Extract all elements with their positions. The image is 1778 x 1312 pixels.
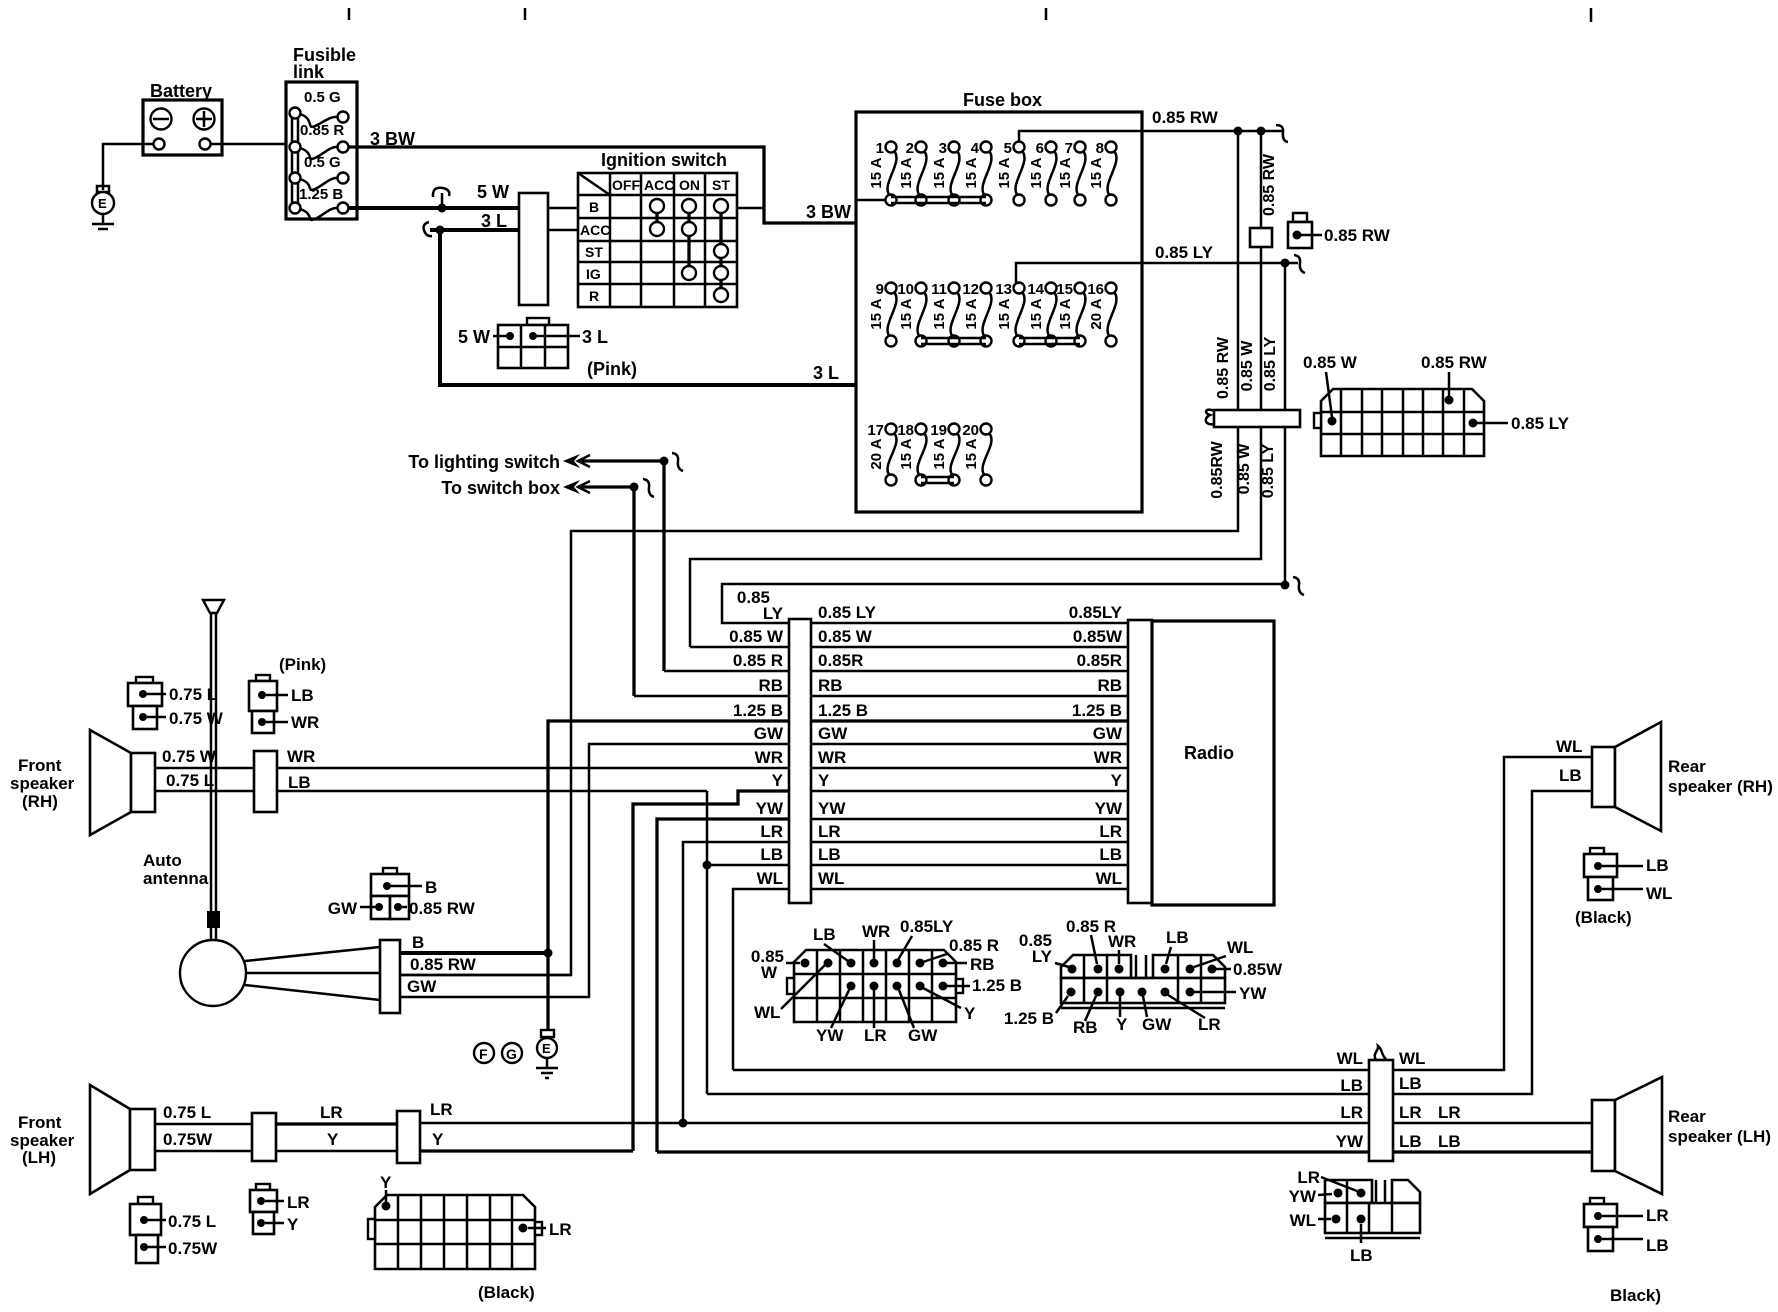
svg-text:0.85 LY: 0.85 LY (1262, 336, 1279, 391)
wire 5W fusible link to ignition switch (348, 182, 519, 213)
svg-text:0.75 L: 0.75 L (166, 771, 214, 790)
svg-text:Fuse box: Fuse box (963, 90, 1042, 110)
wire 0.85RW antenna (400, 955, 571, 975)
svg-text:link: link (293, 62, 325, 82)
rear speaker (LH) (1592, 1077, 1771, 1194)
pin label WL (right grid) (1194, 938, 1253, 967)
svg-text:speaker (LH): speaker (LH) (1668, 1127, 1771, 1146)
svg-text:(Pink): (Pink) (279, 655, 326, 674)
svg-text:LR: LR (320, 1103, 343, 1122)
svg-text:12: 12 (962, 281, 979, 298)
fuse 18 (15 A) (897, 422, 926, 486)
pin label WL (left grid) (754, 965, 825, 1022)
svg-text:0.85 LY: 0.85 LY (1511, 414, 1570, 433)
svg-text:0.85R: 0.85R (1077, 651, 1122, 670)
svg-text:GW: GW (908, 1026, 938, 1045)
wire 0.85R left route (664, 670, 789, 673)
wire 0.85LY from fuse 13 (1016, 243, 1305, 283)
wire Y left route with jog (633, 791, 789, 1151)
wire GW left route (400, 744, 789, 997)
svg-text:1.25 B: 1.25 B (733, 701, 783, 720)
pin label 0.85R (left grid) (923, 936, 999, 962)
svg-text:Front: Front (18, 756, 62, 775)
svg-text:1.25 B: 1.25 B (1072, 701, 1122, 720)
svg-text:E: E (98, 196, 107, 211)
harness grid connector (top right) (1303, 353, 1570, 456)
wire LR radio harness (760, 822, 1128, 842)
svg-text:Ignition switch: Ignition switch (601, 150, 727, 170)
svg-text:15 A: 15 A (1028, 157, 1045, 188)
svg-text:15 A: 15 A (1088, 157, 1105, 188)
svg-text:WR: WR (1108, 932, 1136, 951)
ignition harness connector (Pink) (458, 318, 637, 379)
wire battery negative to ground (103, 144, 153, 190)
pin label LR (left grid) (864, 990, 887, 1045)
svg-text:0.75 W: 0.75 W (162, 747, 217, 766)
svg-text:Auto: Auto (143, 851, 182, 870)
svg-text:Rear: Rear (1668, 757, 1706, 776)
harness grid connector (bottom right) (1289, 1168, 1420, 1265)
wire 0.85RW from fuse 5 (1019, 108, 1288, 142)
inline connector bar (top right) (1206, 410, 1300, 427)
fusible link (286, 45, 357, 220)
svg-text:15 A: 15 A (996, 157, 1013, 188)
wire 0.85W vertical (690, 131, 1278, 647)
wire GW antenna (407, 977, 437, 996)
fuse 3 (15 A) (931, 140, 960, 206)
wire WR from front RH to radio (277, 747, 789, 768)
svg-text:IG: IG (586, 266, 601, 282)
ignition switch table (578, 150, 737, 307)
connector G (502, 1043, 522, 1063)
svg-text:11: 11 (931, 281, 947, 298)
fuse 13 (15 A) (995, 281, 1024, 347)
svg-text:B: B (589, 199, 599, 215)
spare connector 0.75L/0.75W (upper left) (128, 677, 224, 729)
svg-text:YW: YW (818, 799, 846, 818)
svg-text:0.85 LY: 0.85 LY (1155, 243, 1214, 262)
wire YW bottom run (657, 1150, 1369, 1153)
svg-text:B: B (412, 933, 424, 952)
radio connector bar (right) (1128, 620, 1152, 903)
svg-text:0.85 R: 0.85 R (949, 936, 999, 955)
svg-text:1.25 B: 1.25 B (299, 186, 343, 203)
fuse 1 (15 A) (868, 140, 897, 206)
svg-text:LB: LB (1646, 856, 1669, 875)
svg-text:15 A: 15 A (996, 298, 1013, 329)
svg-text:13: 13 (995, 281, 1012, 298)
svg-text:LB: LB (813, 925, 836, 944)
svg-text:3 L: 3 L (813, 363, 839, 383)
pin label GW (right grid) (1142, 996, 1172, 1034)
svg-text:Radio: Radio (1184, 743, 1234, 763)
spare connector LB/WR (Pink) (249, 655, 326, 733)
svg-text:WL: WL (1337, 1049, 1363, 1068)
svg-text:0.85LY: 0.85LY (1069, 603, 1123, 622)
svg-text:LR: LR (1438, 1103, 1461, 1122)
svg-text:YW: YW (756, 799, 784, 818)
svg-text:0.85 W: 0.85 W (1239, 340, 1256, 392)
svg-text:0.85 W: 0.85 W (818, 627, 873, 646)
svg-text:15 A: 15 A (898, 438, 915, 469)
svg-text:LB: LB (1399, 1132, 1422, 1151)
pin label 0.85LY (left grid) (898, 917, 954, 960)
svg-text:LB: LB (1646, 1236, 1669, 1255)
wire 3L ignition switch feed (424, 211, 1049, 385)
svg-text:LB: LB (1399, 1074, 1422, 1093)
wire 3BW from fusible link to fuse box (348, 129, 1017, 223)
spare connector LR/LB rear LH (Black) (1584, 1198, 1669, 1305)
svg-text:RB: RB (758, 676, 783, 695)
pin label WR (left grid) (862, 922, 890, 959)
connector 0.85RW single pin (1288, 213, 1391, 248)
fuse 11 (15 A) (931, 281, 960, 347)
svg-text:15 A: 15 A (931, 438, 948, 469)
svg-text:LB: LB (818, 845, 841, 864)
connector front LH 2 (397, 1111, 420, 1163)
wire WL bottom run (733, 1069, 1369, 1072)
svg-text:0.85 RW: 0.85 RW (1152, 108, 1219, 127)
svg-text:WR: WR (755, 748, 783, 767)
svg-text:7: 7 (1065, 140, 1073, 157)
svg-text:15 A: 15 A (1057, 157, 1074, 188)
svg-text:LY: LY (1032, 947, 1053, 966)
svg-text:LR: LR (1099, 822, 1122, 841)
fuse 8 (15 A) (1088, 140, 1117, 206)
wire 0.85LY left route (722, 584, 1285, 623)
fuse 16 (20 A) (1087, 281, 1116, 347)
svg-text:LB: LB (288, 773, 311, 792)
fuse bus row2 fuses 13-15 (1019, 338, 1080, 344)
pin label Y (left grid) (923, 988, 976, 1023)
svg-text:1: 1 (876, 140, 884, 157)
svg-text:0.85RW: 0.85RW (1209, 440, 1226, 498)
ground E (radio) (536, 1030, 558, 1078)
svg-text:antenna: antenna (143, 869, 209, 888)
svg-text:To switch box: To switch box (441, 478, 560, 498)
fuse 6 (15 A) (1028, 140, 1057, 206)
svg-text:ACC: ACC (580, 222, 610, 238)
svg-text:LB: LB (1559, 766, 1582, 785)
svg-text:LR: LR (1340, 1103, 1363, 1122)
svg-text:WL: WL (1399, 1049, 1425, 1068)
svg-text:LY: LY (763, 604, 784, 623)
svg-text:B: B (425, 878, 437, 897)
svg-text:E: E (542, 1041, 551, 1056)
middle harness connector (left, 7x3) (787, 950, 963, 1022)
svg-text:LR: LR (864, 1026, 887, 1045)
svg-text:LR: LR (430, 1100, 453, 1119)
inline connector bar (bottom right) (1336, 1046, 1426, 1161)
svg-text:LB: LB (760, 845, 783, 864)
svg-text:Rear: Rear (1668, 1107, 1706, 1126)
wire Y front LH (276, 1130, 397, 1151)
page tick marks (349, 8, 1591, 22)
svg-text:LR: LR (1198, 1015, 1221, 1034)
svg-text:ST: ST (585, 244, 603, 260)
svg-text:Y: Y (380, 1173, 392, 1192)
wire RB left route (634, 695, 789, 698)
pin label 0.85LY (right grid) (1019, 931, 1069, 967)
spare connector LB/WL rear RH (Black) (1575, 848, 1672, 927)
svg-text:0.85 R: 0.85 R (733, 651, 783, 670)
svg-text:WL: WL (1290, 1211, 1316, 1230)
svg-text:15 A: 15 A (868, 157, 885, 188)
svg-text:To lighting switch: To lighting switch (408, 452, 560, 472)
svg-text:0.85 W: 0.85 W (1303, 353, 1358, 372)
svg-text:LR: LR (549, 1220, 572, 1239)
wire Y continuation (420, 1130, 633, 1151)
svg-text:15 A: 15 A (868, 298, 885, 329)
svg-text:0.85 RW: 0.85 RW (1421, 353, 1488, 372)
svg-text:Y: Y (327, 1130, 339, 1149)
svg-text:0.85 LY: 0.85 LY (1260, 443, 1277, 498)
svg-text:3 BW: 3 BW (806, 202, 851, 222)
spare connector 0.75L/0.75W (bottom left) (130, 1197, 218, 1263)
wire LB to rear speaker LH (1393, 1132, 1592, 1152)
svg-text:GW: GW (328, 899, 358, 918)
svg-text:GW: GW (1142, 1015, 1172, 1034)
svg-text:Y: Y (772, 771, 784, 790)
wire YW radio harness (756, 799, 1128, 819)
svg-text:2: 2 (906, 140, 914, 157)
svg-text:LR: LR (1646, 1206, 1669, 1225)
wire B antenna (400, 933, 548, 953)
svg-text:3: 3 (939, 140, 947, 157)
fuse box (856, 90, 1142, 512)
fuse 4 (15 A) (963, 140, 992, 206)
fuse 5 (15 A) (996, 140, 1025, 206)
svg-text:3 L: 3 L (582, 327, 608, 347)
svg-text:YW: YW (1095, 799, 1123, 818)
svg-text:GW: GW (407, 977, 437, 996)
svg-text:15 A: 15 A (1057, 298, 1074, 329)
svg-text:14: 14 (1027, 281, 1044, 298)
svg-text:0.75 L: 0.75 L (163, 1103, 211, 1122)
svg-text:0.75W: 0.75W (168, 1239, 218, 1258)
wire RB radio harness (758, 676, 1128, 696)
svg-text:RB: RB (1097, 676, 1122, 695)
svg-text:(Black): (Black) (478, 1283, 535, 1302)
wire LB to rear speaker RH (1393, 766, 1592, 1094)
harness grid connector (bottom left, Black) (368, 1173, 572, 1302)
svg-text:0.85 RW: 0.85 RW (1215, 336, 1232, 399)
fuse 9 (15 A) (868, 281, 897, 347)
pin label LB (right grid) (1166, 928, 1189, 964)
wire battery positive to fusible link (211, 143, 292, 146)
pin label LB (left grid) (813, 925, 848, 961)
svg-text:RB: RB (970, 955, 995, 974)
svg-text:LR: LR (818, 822, 841, 841)
fuse bus row2 fuses 10-12 (921, 338, 986, 344)
fuse 20 (15 A) (962, 422, 991, 486)
fuse 7 (15 A) (1057, 140, 1086, 206)
svg-text:Battery: Battery (150, 81, 212, 101)
svg-text:5: 5 (1004, 140, 1012, 157)
svg-text:Front: Front (18, 1113, 62, 1132)
svg-text:0.85 RW: 0.85 RW (409, 899, 476, 918)
svg-text:15 A: 15 A (898, 157, 915, 188)
wire WL left route (733, 889, 789, 1070)
svg-text:0.85 W: 0.85 W (1236, 443, 1253, 495)
svg-text:WR: WR (862, 922, 890, 941)
svg-text:WL: WL (1646, 884, 1672, 903)
wire 0.75W front RH (155, 747, 254, 768)
svg-text:0.85LY: 0.85LY (900, 917, 954, 936)
wire WR radio harness (755, 748, 1128, 768)
svg-text:0.85R: 0.85R (818, 651, 863, 670)
svg-text:Y: Y (964, 1004, 976, 1023)
wire LR left route (679, 842, 790, 1128)
svg-text:YW: YW (816, 1026, 844, 1045)
wire 0.75W front LH (155, 1130, 252, 1151)
svg-text:0.85 W: 0.85 W (729, 627, 784, 646)
svg-text:YW: YW (1289, 1187, 1317, 1206)
radio connector bar (left) (789, 619, 811, 903)
wire 1.25B left route to ground (544, 721, 790, 1030)
svg-text:WL: WL (1096, 869, 1122, 888)
svg-text:WL: WL (1556, 737, 1582, 756)
svg-text:0.85W: 0.85W (1233, 960, 1283, 979)
svg-text:Y: Y (287, 1215, 299, 1234)
fuse 2 (15 A) (898, 140, 927, 206)
svg-text:YW: YW (1336, 1132, 1364, 1151)
svg-text:(Pink): (Pink) (587, 359, 637, 379)
svg-text:GW: GW (754, 724, 784, 743)
svg-text:R: R (589, 288, 599, 304)
wire GW radio harness (754, 724, 1128, 744)
svg-text:9: 9 (876, 281, 884, 298)
connector front LH 1 (252, 1113, 276, 1161)
fuse 14 (15 A) (1027, 281, 1056, 347)
svg-text:LB: LB (1350, 1246, 1373, 1265)
rear speaker (RH) (1592, 722, 1773, 831)
wire to switch box (RB) (441, 478, 654, 696)
wire YW left route (657, 819, 789, 1152)
svg-text:20 A: 20 A (868, 438, 885, 469)
pin label LR (right grid) (1168, 995, 1221, 1034)
svg-text:ON: ON (679, 177, 700, 193)
svg-text:(RH): (RH) (22, 792, 58, 811)
svg-text:15 A: 15 A (963, 438, 980, 469)
svg-text:LR: LR (287, 1193, 310, 1212)
wire 0.85W left route (690, 646, 789, 649)
svg-text:15 A: 15 A (931, 157, 948, 188)
wire 0.85LY vertical (1260, 263, 1304, 595)
svg-text:WL: WL (818, 869, 844, 888)
pin label GW (left grid) (899, 990, 938, 1045)
antenna connector B/GW/0.85RW (328, 868, 476, 919)
pin label 0.85W (left grid) (751, 947, 800, 982)
fuse bus row3 fuses 18-19 (921, 477, 954, 483)
svg-text:0.5 G: 0.5 G (304, 89, 341, 106)
svg-text:15 A: 15 A (963, 157, 980, 188)
svg-text:LR: LR (760, 822, 783, 841)
pin label 0.85R (right grid) (1066, 917, 1116, 964)
wire LB radio harness (760, 845, 1128, 865)
svg-text:Y: Y (818, 771, 830, 790)
pin label YW (right grid) (1194, 984, 1267, 1003)
wire LB from front RH (277, 773, 707, 792)
connector F (474, 1043, 494, 1063)
front speaker (RH) (10, 730, 155, 835)
svg-text:speaker: speaker (10, 774, 75, 793)
middle harness connector (right, 7x2) (1061, 955, 1225, 1008)
svg-text:WR: WR (287, 747, 315, 766)
ignition switch connector (519, 193, 578, 305)
svg-text:15 A: 15 A (963, 298, 980, 329)
wire 0.85LY radio harness (737, 588, 1128, 623)
svg-text:17: 17 (867, 422, 884, 439)
svg-text:WL: WL (754, 1003, 780, 1022)
svg-text:10: 10 (897, 281, 914, 298)
svg-text:Y: Y (1116, 1015, 1128, 1034)
svg-text:GW: GW (1093, 724, 1123, 743)
connector on 0.85W wire (1250, 228, 1272, 247)
svg-text:ST: ST (712, 177, 730, 193)
radio unit (1152, 621, 1274, 905)
svg-text:0.85 RW: 0.85 RW (1261, 153, 1278, 216)
wire to lighting switch (0.85R) (408, 452, 683, 671)
svg-text:0.75 L: 0.75 L (168, 1212, 216, 1231)
svg-text:WR: WR (291, 713, 319, 732)
fuse 17 (20 A) (867, 422, 896, 486)
svg-text:15 A: 15 A (1028, 298, 1045, 329)
svg-text:0.85 RW: 0.85 RW (410, 955, 477, 974)
wire 0.75L front RH (155, 771, 254, 791)
svg-text:15 A: 15 A (898, 298, 915, 329)
svg-text:19: 19 (930, 422, 947, 439)
svg-text:WR: WR (818, 748, 846, 767)
wire 1.25B radio harness (733, 701, 1128, 721)
svg-text:LB: LB (1438, 1132, 1461, 1151)
fuse 15 (15 A) (1056, 281, 1085, 347)
fuse 12 (15 A) (962, 281, 991, 347)
svg-text:0.85W: 0.85W (1073, 627, 1123, 646)
svg-text:LB: LB (1099, 845, 1122, 864)
wire 0.85W radio harness (729, 627, 1128, 647)
svg-text:YW: YW (1239, 984, 1267, 1003)
svg-text:15 A: 15 A (931, 298, 948, 329)
svg-text:LR: LR (1399, 1103, 1422, 1122)
svg-text:20 A: 20 A (1088, 298, 1105, 329)
front speaker (LH) (10, 1085, 155, 1194)
svg-text:(LH): (LH) (22, 1148, 56, 1167)
pin label 0.85W (right grid) (1216, 960, 1283, 979)
wire WL to rear speaker RH (1393, 737, 1592, 1070)
svg-text:1.25 B: 1.25 B (972, 976, 1022, 995)
wire WL radio harness (757, 869, 1128, 889)
svg-text:G: G (506, 1046, 517, 1062)
svg-text:LB: LB (1166, 928, 1189, 947)
svg-text:LB: LB (291, 686, 314, 705)
svg-text:F: F (479, 1046, 488, 1062)
wire LR to rear (bottom run) (420, 1100, 1369, 1123)
svg-text:Y: Y (432, 1130, 444, 1149)
svg-text:1.25 B: 1.25 B (1004, 1009, 1054, 1028)
pin label 1.25B (right grid) (1004, 996, 1068, 1028)
svg-text:6: 6 (1036, 140, 1044, 157)
pin label RB (left grid) (947, 955, 995, 974)
svg-text:5 W: 5 W (458, 327, 490, 347)
svg-text:(Black): (Black) (1575, 908, 1632, 927)
svg-text:W: W (761, 963, 778, 982)
pin label YW (left grid) (816, 990, 849, 1045)
svg-text:0.85 R: 0.85 R (300, 122, 344, 139)
auto antenna (143, 600, 400, 1013)
svg-text:Black): Black) (1610, 1286, 1661, 1305)
svg-text:8: 8 (1096, 140, 1104, 157)
